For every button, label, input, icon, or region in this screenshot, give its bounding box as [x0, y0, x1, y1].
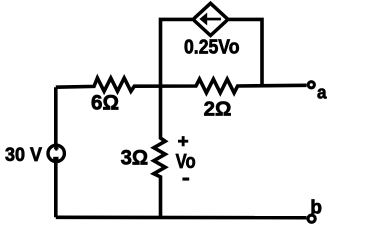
terminal b circle	[308, 215, 315, 222]
plus polarity mark for Vo	[178, 136, 188, 146]
minus mark inside source	[53, 157, 58, 161]
wire: current-source loop, left vertical + top-left segment	[161, 19, 193, 86]
svg-text:30 V: 30 V	[5, 144, 42, 166]
wire: center vertical with 3-ohm zigzag	[154, 86, 165, 217]
svg-text:a: a	[317, 82, 327, 103]
svg-text:3Ω: 3Ω	[121, 147, 149, 170]
plus mark inside source	[54, 146, 59, 151]
wire: bottom horizontal rail	[56, 216, 307, 220]
dependent current source U1 diamond	[193, 3, 228, 35]
svg-text:b: b	[310, 197, 322, 218]
arrow inside current source (pointing left)	[207, 18, 221, 21]
terminal a circle	[308, 82, 314, 88]
svg-text:Vo: Vo	[176, 151, 196, 173]
voltage source V1 circle	[48, 145, 64, 161]
svg-text:2Ω: 2Ω	[204, 97, 232, 120]
wire: middle horizontal rail with 6-ohm and 2-ohm zigzags	[56, 78, 307, 93]
wire: current-source loop, top-right segment + right vertical	[229, 19, 262, 86]
svg-text:0.25Vo: 0.25Vo	[184, 37, 240, 59]
svg-text:6Ω: 6Ω	[91, 92, 119, 115]
wire: left vertical	[54, 87, 58, 217]
minus polarity mark for Vo	[182, 178, 189, 181]
